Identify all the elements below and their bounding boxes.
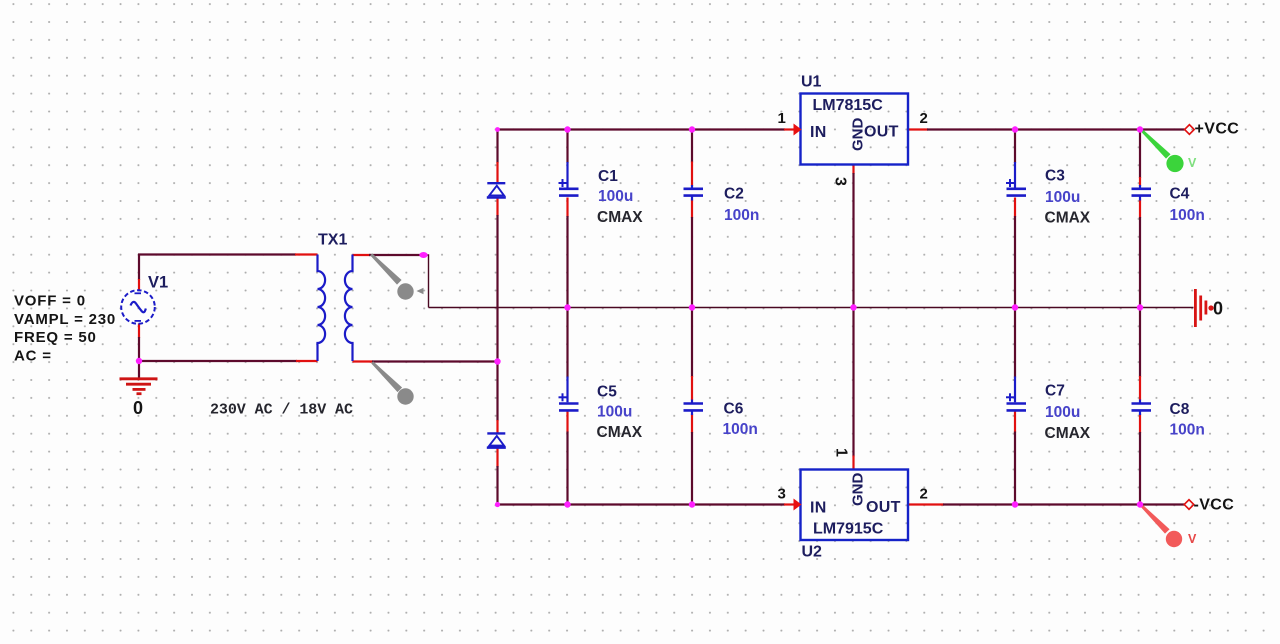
label U1 <box>801 74 822 91</box>
svg-text:CMAX: CMAX <box>597 424 643 441</box>
svg-text:GND: GND <box>850 473 867 507</box>
svg-text:C3: C3 <box>1045 168 1065 185</box>
svg-text:100u: 100u <box>598 188 633 205</box>
svg-text:FREQ = 50: FREQ = 50 <box>14 329 97 346</box>
transformer TX1 primary winding <box>318 255 326 362</box>
svg-text:LM7915C: LM7915C <box>813 521 884 538</box>
label C4 100n <box>1170 186 1205 225</box>
label U2 IN pin name <box>810 500 827 517</box>
capacitor C7 <box>1006 377 1026 411</box>
wire V1 bottom vertical <box>138 324 140 379</box>
svg-text:V: V <box>1188 532 1197 546</box>
wire secondary bottom <box>353 360 498 362</box>
svg-text:CMAX: CMAX <box>1045 210 1091 227</box>
node +VCC port <box>1185 121 1240 138</box>
svg-text:0: 0 <box>133 398 143 418</box>
svg-text:C2: C2 <box>724 186 744 203</box>
wire U1 GND pin to center line to U2 GND pin <box>852 165 854 471</box>
label C2 100n <box>724 186 759 225</box>
wire secondary top <box>353 254 425 256</box>
junction node dots <box>136 126 1143 507</box>
ground 0 right rotated <box>1195 289 1223 327</box>
probe gray bottom on secondary <box>371 361 413 404</box>
capacitor C5 <box>559 377 579 411</box>
label U2 <box>802 544 823 561</box>
diode D2 <box>487 433 506 447</box>
wire C4 column <box>1139 130 1141 308</box>
capacitor C3 <box>1006 162 1026 196</box>
svg-text:230V AC / 18V AC: 230V AC / 18V AC <box>210 402 353 419</box>
wire V1 top vertical <box>138 255 140 292</box>
svg-text:AC =: AC = <box>14 347 52 364</box>
label pin 2 U2 <box>920 486 928 503</box>
label TX1 <box>318 232 347 249</box>
svg-text:OUT: OUT <box>866 499 901 516</box>
svg-text:C8: C8 <box>1170 401 1190 418</box>
label U2 GND pin name rotated <box>850 473 867 507</box>
probe red voltage marker at -VCC <box>1140 504 1197 547</box>
svg-text:TX1: TX1 <box>318 232 347 249</box>
wire top rail left part <box>498 128 795 130</box>
label C1 100u CMAX <box>597 168 643 226</box>
svg-text:3: 3 <box>778 486 786 503</box>
label 0 left ground <box>133 398 143 418</box>
voltage source V1 <box>121 290 155 324</box>
wire C6 column <box>691 308 693 505</box>
wire C7 column <box>1014 308 1016 505</box>
label C7 100u CMAX <box>1045 383 1091 443</box>
wire primary bottom horizontal <box>138 360 318 362</box>
wire C3 column <box>1014 130 1016 308</box>
svg-text:C6: C6 <box>724 401 744 418</box>
node -VCC port <box>1184 497 1234 514</box>
svg-text:U2: U2 <box>802 544 823 561</box>
wire C1 column <box>566 130 568 308</box>
wire diode column vertical x=497 <box>496 130 498 505</box>
svg-text:CMAX: CMAX <box>597 209 643 226</box>
svg-text:100n: 100n <box>724 207 759 224</box>
capacitor C8 <box>1132 400 1152 416</box>
svg-text:VOFF = 0: VOFF = 0 <box>14 293 86 310</box>
label LM7915C <box>813 521 884 538</box>
svg-text:2: 2 <box>920 110 928 127</box>
svg-text:100n: 100n <box>723 421 758 438</box>
transformer TX1 secondary winding <box>345 255 353 362</box>
wire bottom rail left part <box>498 503 795 505</box>
label C5 100u CMAX <box>597 384 643 442</box>
label C6 100n <box>723 401 758 439</box>
U2 pin 3 input arrow <box>794 499 802 511</box>
wire C8 column <box>1139 308 1141 505</box>
svg-text:100n: 100n <box>1170 207 1205 224</box>
svg-text:C5: C5 <box>597 384 617 401</box>
label U2 OUT pin name <box>866 499 901 516</box>
label pin 3 U1 rotated <box>832 177 849 186</box>
svg-text:CMAX: CMAX <box>1045 425 1091 442</box>
wire center horizontal line <box>429 307 1194 309</box>
svg-text:100u: 100u <box>597 404 632 421</box>
svg-text:C7: C7 <box>1045 383 1065 400</box>
svg-text:VAMPL = 230: VAMPL = 230 <box>14 311 116 328</box>
svg-text:+VCC: +VCC <box>1195 121 1240 138</box>
wire C2 column <box>691 130 693 308</box>
U1 pin 1 input arrow <box>794 124 802 136</box>
capacitor C4 <box>1132 185 1152 201</box>
label LM7815C <box>813 97 884 114</box>
svg-text:100u: 100u <box>1045 404 1080 421</box>
probe gray top on secondary <box>370 253 413 299</box>
svg-text:0: 0 <box>1213 299 1223 319</box>
label pin 1 U1 <box>778 110 786 127</box>
svg-text:2: 2 <box>920 486 928 503</box>
svg-text:1: 1 <box>833 448 850 457</box>
regulator U1 box <box>801 94 909 165</box>
small gray cursor arrow near top probe <box>417 288 424 294</box>
svg-text:OUT: OUT <box>864 124 899 141</box>
wire primary top horizontal <box>138 253 318 255</box>
capacitor C1 <box>559 162 579 196</box>
svg-text:V: V <box>1188 156 1197 170</box>
svg-text:LM7815C: LM7815C <box>813 97 884 114</box>
label U1 GND pin name rotated <box>850 118 867 152</box>
wire step from secondary top to center line <box>423 255 429 308</box>
label pin 3 U2 <box>778 486 786 503</box>
svg-text:IN: IN <box>810 124 827 141</box>
svg-text:U1: U1 <box>801 74 822 91</box>
svg-text:C1: C1 <box>598 168 618 185</box>
label pin 2 U1 <box>920 110 928 127</box>
regulator U2 box <box>801 470 909 541</box>
svg-text:V1: V1 <box>148 274 168 292</box>
wire top rail right part <box>908 128 1185 130</box>
svg-text:100n: 100n <box>1170 422 1205 439</box>
svg-text:100u: 100u <box>1045 189 1080 206</box>
label V1 <box>148 274 168 292</box>
diode D1 <box>487 183 506 197</box>
label U1 IN pin name <box>810 124 827 141</box>
svg-text:IN: IN <box>810 500 827 517</box>
svg-text:-VCC: -VCC <box>1194 497 1235 514</box>
wire C5 column <box>566 308 568 505</box>
capacitor C2 <box>684 185 704 201</box>
capacitor C6 <box>684 400 704 416</box>
label pin 1 U2 rotated <box>833 448 850 457</box>
label VOFF VAMPL FREQ AC parameter block <box>14 293 116 365</box>
ground 0 below V1 <box>120 379 158 394</box>
svg-text:1: 1 <box>778 110 786 127</box>
svg-text:3: 3 <box>832 177 849 186</box>
label C8 100n <box>1170 401 1205 439</box>
label U1 OUT pin name <box>864 124 899 141</box>
label C3 100u CMAX <box>1045 168 1091 227</box>
svg-text:C4: C4 <box>1170 186 1190 203</box>
label 230V AC / 18V AC <box>210 402 353 419</box>
probe green voltage marker at +VCC <box>1141 129 1197 172</box>
wire bottom rail right part <box>908 503 1185 505</box>
